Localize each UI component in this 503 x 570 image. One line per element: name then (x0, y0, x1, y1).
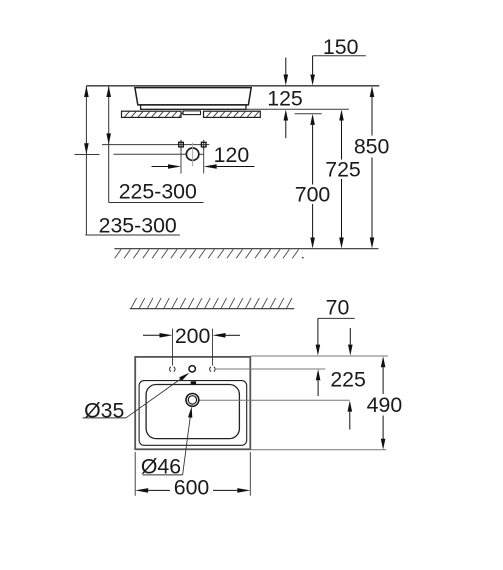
supply centre line D middle (114, 153, 187, 155)
supply vertical centreline (grey) (192, 143, 194, 167)
dim 235-300 underline (85, 234, 180, 236)
dim 235-300 vertical line (85, 86, 87, 235)
water supply circle (186, 148, 198, 160)
extension line below right square (203, 148, 205, 174)
supply centre line D right (199, 153, 204, 155)
wall hatch ticks (131, 298, 137, 309)
mounting plate middle drain section (183, 111, 201, 115)
dim 200 right arrow (225, 334, 240, 336)
dim 70 bottom arrow (316, 369, 321, 380)
dim 200 right witness line (212, 329, 214, 366)
tap hole centre (O35) (189, 366, 195, 372)
svg-text:225-300: 225-300 (119, 180, 197, 204)
basin bowl outline inner (146, 385, 239, 439)
drain hole inner circle (188, 396, 196, 404)
dim 150 arrow (312, 56, 314, 75)
tap hole right (paren arcs) (214, 367, 215, 372)
dim 120 left arrow (152, 166, 170, 168)
svg-text:70: 70 (326, 295, 350, 319)
dim 125 top arrow (285, 58, 287, 76)
mounting plate left segment (hatched) (122, 111, 182, 117)
dim 200 left witness line (172, 329, 174, 366)
dim 120 right arrow (217, 166, 255, 168)
tap hole centre extension line (216, 368, 325, 370)
svg-text:700: 700 (295, 183, 331, 207)
tap hole left (paren arcs) (174, 367, 175, 372)
dim 700 line (310, 114, 315, 125)
dim 70 leader line (318, 317, 355, 319)
dim 850 line (370, 86, 375, 97)
svg-text:125: 125 (267, 86, 303, 110)
drain hole outer circle (O46) (186, 394, 199, 407)
mounting plate left hatch lines (125, 112, 130, 117)
fixing hole square left vertical arm (180, 140, 182, 149)
wall hatch baseline (plan view) (130, 308, 295, 310)
dim 225 bottom arrow (348, 401, 353, 412)
dim 225-300 vertical line (108, 86, 110, 203)
supply centre line D left tick (75, 154, 100, 156)
floor hatch ticks (115, 249, 121, 258)
svg-text:490: 490 (367, 393, 403, 417)
dim 225-300 underline (109, 202, 204, 204)
dim 70 top arrow (317, 318, 319, 345)
dim 200 left arrow (143, 334, 160, 336)
reference line B - underside of plate extended right (295, 113, 322, 115)
svg-text:225: 225 (330, 367, 366, 391)
dim 490 line (381, 356, 386, 367)
svg-text:120: 120 (214, 143, 250, 167)
svg-text:725: 725 (325, 158, 361, 182)
basin bowl outline outer (139, 381, 247, 446)
mounting plate right hatch lines (207, 112, 212, 117)
floor line (114, 248, 378, 250)
svg-text:600: 600 (174, 475, 210, 499)
extension line below left square (180, 148, 182, 174)
dim 125 bottom arrow (284, 110, 289, 121)
dim 600 line with arrows (135, 488, 148, 493)
dim 600 left witness line (134, 452, 136, 496)
dim 150 leader line (313, 55, 366, 57)
washbasin bowl side view (135, 88, 251, 105)
svg-text:200: 200 (175, 324, 211, 348)
dim 225 top arrow (349, 328, 351, 345)
drain centre extension line (199, 399, 350, 401)
overflow slot (191, 381, 196, 384)
svg-text:150: 150 (323, 35, 359, 59)
fixing hole square left (179, 142, 184, 147)
fixing hole centre line C (102, 144, 209, 146)
mounting plate right segment (hatched) (204, 111, 261, 117)
reference line A - underside of basin base extended right (246, 108, 349, 110)
svg-text:Ø35: Ø35 (84, 398, 124, 422)
svg-text:235-300: 235-300 (99, 213, 177, 237)
basin outer rectangle (plan) (135, 357, 250, 449)
wall reference line (top, rim height) (86, 85, 379, 87)
dim 725 line (339, 110, 344, 121)
fixing hole square right (201, 142, 206, 147)
svg-text:850: 850 (354, 135, 390, 159)
rear edge extension line (250, 355, 388, 357)
front edge extension line (250, 449, 386, 451)
dim 600 right witness line (249, 452, 251, 496)
fixing hole square right vertical arm (203, 140, 205, 149)
washbasin base pedestal (141, 105, 246, 109)
